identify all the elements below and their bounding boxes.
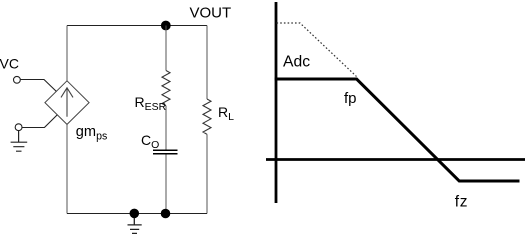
wire bottom rail — [67, 213, 207, 215]
node VOUT junction dot — [161, 21, 171, 31]
wire R_ESR to C_O — [165, 106, 167, 150]
wire left branch lower — [66, 124, 68, 213]
resistor R_ESR zigzag — [162, 71, 170, 106]
wire top rail — [67, 25, 207, 27]
svg-text:fz: fz — [455, 193, 469, 210]
ground symbol left — [11, 131, 28, 152]
wire R_L branch upper — [206, 26, 208, 100]
terminal ground circle — [15, 124, 22, 131]
wire R_L lower — [206, 134, 208, 213]
current source arrow — [61, 88, 73, 117]
current source U1 diamond gm_ps — [45, 81, 89, 125]
svg-text:fp: fp — [344, 90, 357, 107]
svg-text:Adc: Adc — [283, 54, 310, 71]
svg-text:RL: RL — [218, 104, 234, 123]
node C_O junction dot — [161, 209, 171, 219]
capacitor C_O plates — [153, 150, 178, 154]
wire R_ESR branch upper — [165, 26, 167, 71]
wire ground terminal to source — [22, 115, 57, 128]
ground symbol bottom — [128, 218, 142, 233]
curve dotted uncompensated — [277, 23, 357, 77]
wire left branch upper — [66, 26, 68, 82]
wire VC to source — [20, 80, 56, 92]
resistor R_L zigzag — [203, 99, 211, 134]
svg-text:RESR: RESR — [135, 94, 167, 113]
axis horizontal frequency — [266, 158, 525, 161]
wire C_O lower — [165, 155, 167, 214]
svg-text:VC: VC — [0, 56, 19, 72]
svg-text:CO: CO — [141, 132, 159, 151]
curve gain bode — [275, 79, 520, 181]
node ground junction dot — [130, 209, 140, 219]
svg-text:gmps: gmps — [76, 124, 107, 143]
terminal VC circle — [14, 76, 21, 83]
svg-text:VOUT: VOUT — [190, 5, 232, 22]
axis vertical gain — [275, 2, 278, 203]
